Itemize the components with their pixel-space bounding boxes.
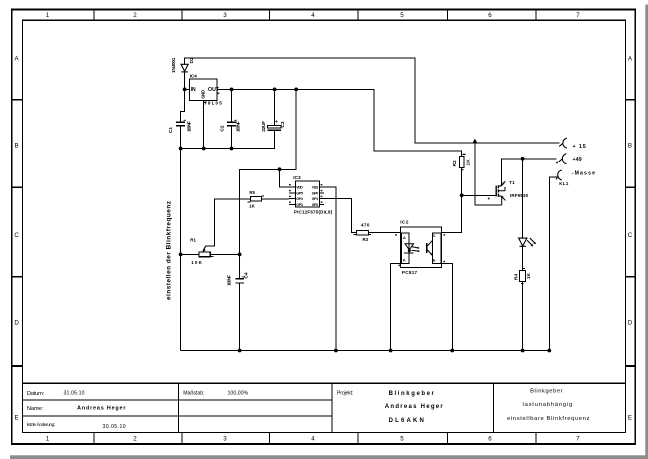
svg-text:2: 2	[133, 436, 137, 443]
svg-text:VDD: VDD	[296, 185, 303, 189]
svg-text:30.05.10: 30.05.10	[103, 424, 126, 430]
svg-text:C4: C4	[243, 272, 249, 278]
svg-text:4: 4	[311, 436, 315, 443]
svg-text:100,00%: 100,00%	[228, 390, 249, 396]
svg-text:Blinkgeber: Blinkgeber	[389, 391, 435, 397]
svg-text:GP1: GP1	[312, 197, 319, 201]
svg-text:R1: R1	[190, 237, 196, 242]
svg-text:C3: C3	[280, 121, 286, 127]
svg-text:5: 5	[400, 12, 404, 19]
svg-text:B: B	[628, 143, 632, 150]
svg-text:E: E	[433, 258, 436, 262]
svg-text:3: 3	[223, 12, 227, 19]
svg-text:R4: R4	[513, 274, 519, 280]
svg-text:IRF9530: IRF9530	[510, 193, 529, 198]
svg-text:C: C	[433, 234, 436, 238]
svg-text:1N4001: 1N4001	[171, 57, 177, 73]
svg-text:E: E	[15, 415, 19, 422]
svg-text:1K: 1K	[466, 159, 472, 166]
svg-text:1K: 1K	[526, 273, 532, 280]
svg-text:C: C	[628, 232, 633, 239]
svg-text:Andreas Heger: Andreas Heger	[77, 405, 126, 411]
svg-text:PC817: PC817	[402, 270, 418, 275]
svg-text:IC2: IC2	[400, 220, 409, 226]
svg-text:7: 7	[576, 436, 580, 443]
svg-text:Projekt:: Projekt:	[337, 390, 353, 396]
svg-text:31.05.10: 31.05.10	[64, 390, 85, 396]
svg-text:VSS: VSS	[312, 185, 319, 189]
svg-text:D: D	[628, 320, 633, 327]
svg-text:6: 6	[488, 12, 492, 19]
svg-text:lastunabhängig: lastunabhängig	[523, 402, 573, 408]
svg-text:100NF: 100NF	[236, 121, 242, 132]
svg-text:KL1: KL1	[559, 181, 569, 186]
svg-text:1: 1	[46, 436, 50, 443]
svg-text:D: D	[14, 320, 19, 327]
svg-text:GP2: GP2	[312, 203, 319, 207]
svg-text:GP4: GP4	[296, 197, 303, 201]
svg-text:Blinkgeber: Blinkgeber	[530, 388, 563, 394]
svg-text:10K: 10K	[191, 260, 202, 265]
svg-text:3: 3	[223, 436, 227, 443]
svg-text:GP3: GP3	[296, 203, 303, 207]
svg-text:GP0: GP0	[312, 191, 319, 195]
svg-text:C2: C2	[220, 125, 226, 131]
svg-text:einstellbare Blinkfrequenz: einstellbare Blinkfrequenz	[507, 416, 589, 422]
svg-text:+49: +49	[573, 157, 582, 163]
svg-text:K: K	[403, 258, 406, 262]
svg-text:5: 5	[400, 436, 404, 443]
svg-text:1: 1	[46, 12, 50, 19]
svg-text:470: 470	[361, 223, 370, 228]
svg-text:GP5: GP5	[296, 191, 303, 195]
svg-text:4: 4	[311, 12, 315, 19]
svg-text:-Masse: -Masse	[572, 170, 595, 176]
svg-text:6: 6	[488, 436, 492, 443]
svg-text:E: E	[628, 415, 632, 422]
svg-text:Datum:: Datum:	[27, 391, 45, 397]
svg-text:OUT: OUT	[208, 87, 220, 93]
svg-text:D2: D2	[189, 57, 195, 63]
svg-text:R3: R3	[363, 237, 369, 242]
svg-text:R5: R5	[249, 190, 255, 195]
svg-text:A: A	[403, 236, 406, 240]
svg-text:7: 7	[576, 12, 580, 19]
svg-text:IC3: IC3	[293, 175, 301, 181]
svg-text:R2: R2	[452, 160, 458, 166]
svg-text:100NF: 100NF	[187, 121, 193, 132]
svg-text:2: 2	[133, 12, 137, 19]
svg-text:GND: GND	[201, 90, 206, 99]
svg-text:letzte Änderung:: letzte Änderung:	[27, 421, 55, 427]
svg-text:C1: C1	[168, 127, 174, 133]
svg-text:IC4: IC4	[190, 73, 197, 79]
svg-text:C: C	[14, 232, 19, 239]
svg-text:100NF: 100NF	[226, 275, 232, 286]
svg-text:T1: T1	[509, 180, 515, 185]
svg-text:B: B	[15, 143, 19, 150]
svg-text:Name:: Name:	[27, 406, 44, 412]
svg-text:PIC12F675(DIL8): PIC12F675(DIL8)	[294, 209, 333, 214]
svg-text:einstellen der Blinkfrequenz: einstellen der Blinkfrequenz	[165, 201, 172, 300]
svg-text:+ 15: + 15	[573, 144, 586, 150]
svg-text:Maßstab:: Maßstab:	[183, 391, 204, 397]
svg-text:1K: 1K	[249, 203, 255, 208]
svg-text:22UF: 22UF	[261, 121, 267, 132]
svg-text:IN: IN	[191, 87, 196, 93]
